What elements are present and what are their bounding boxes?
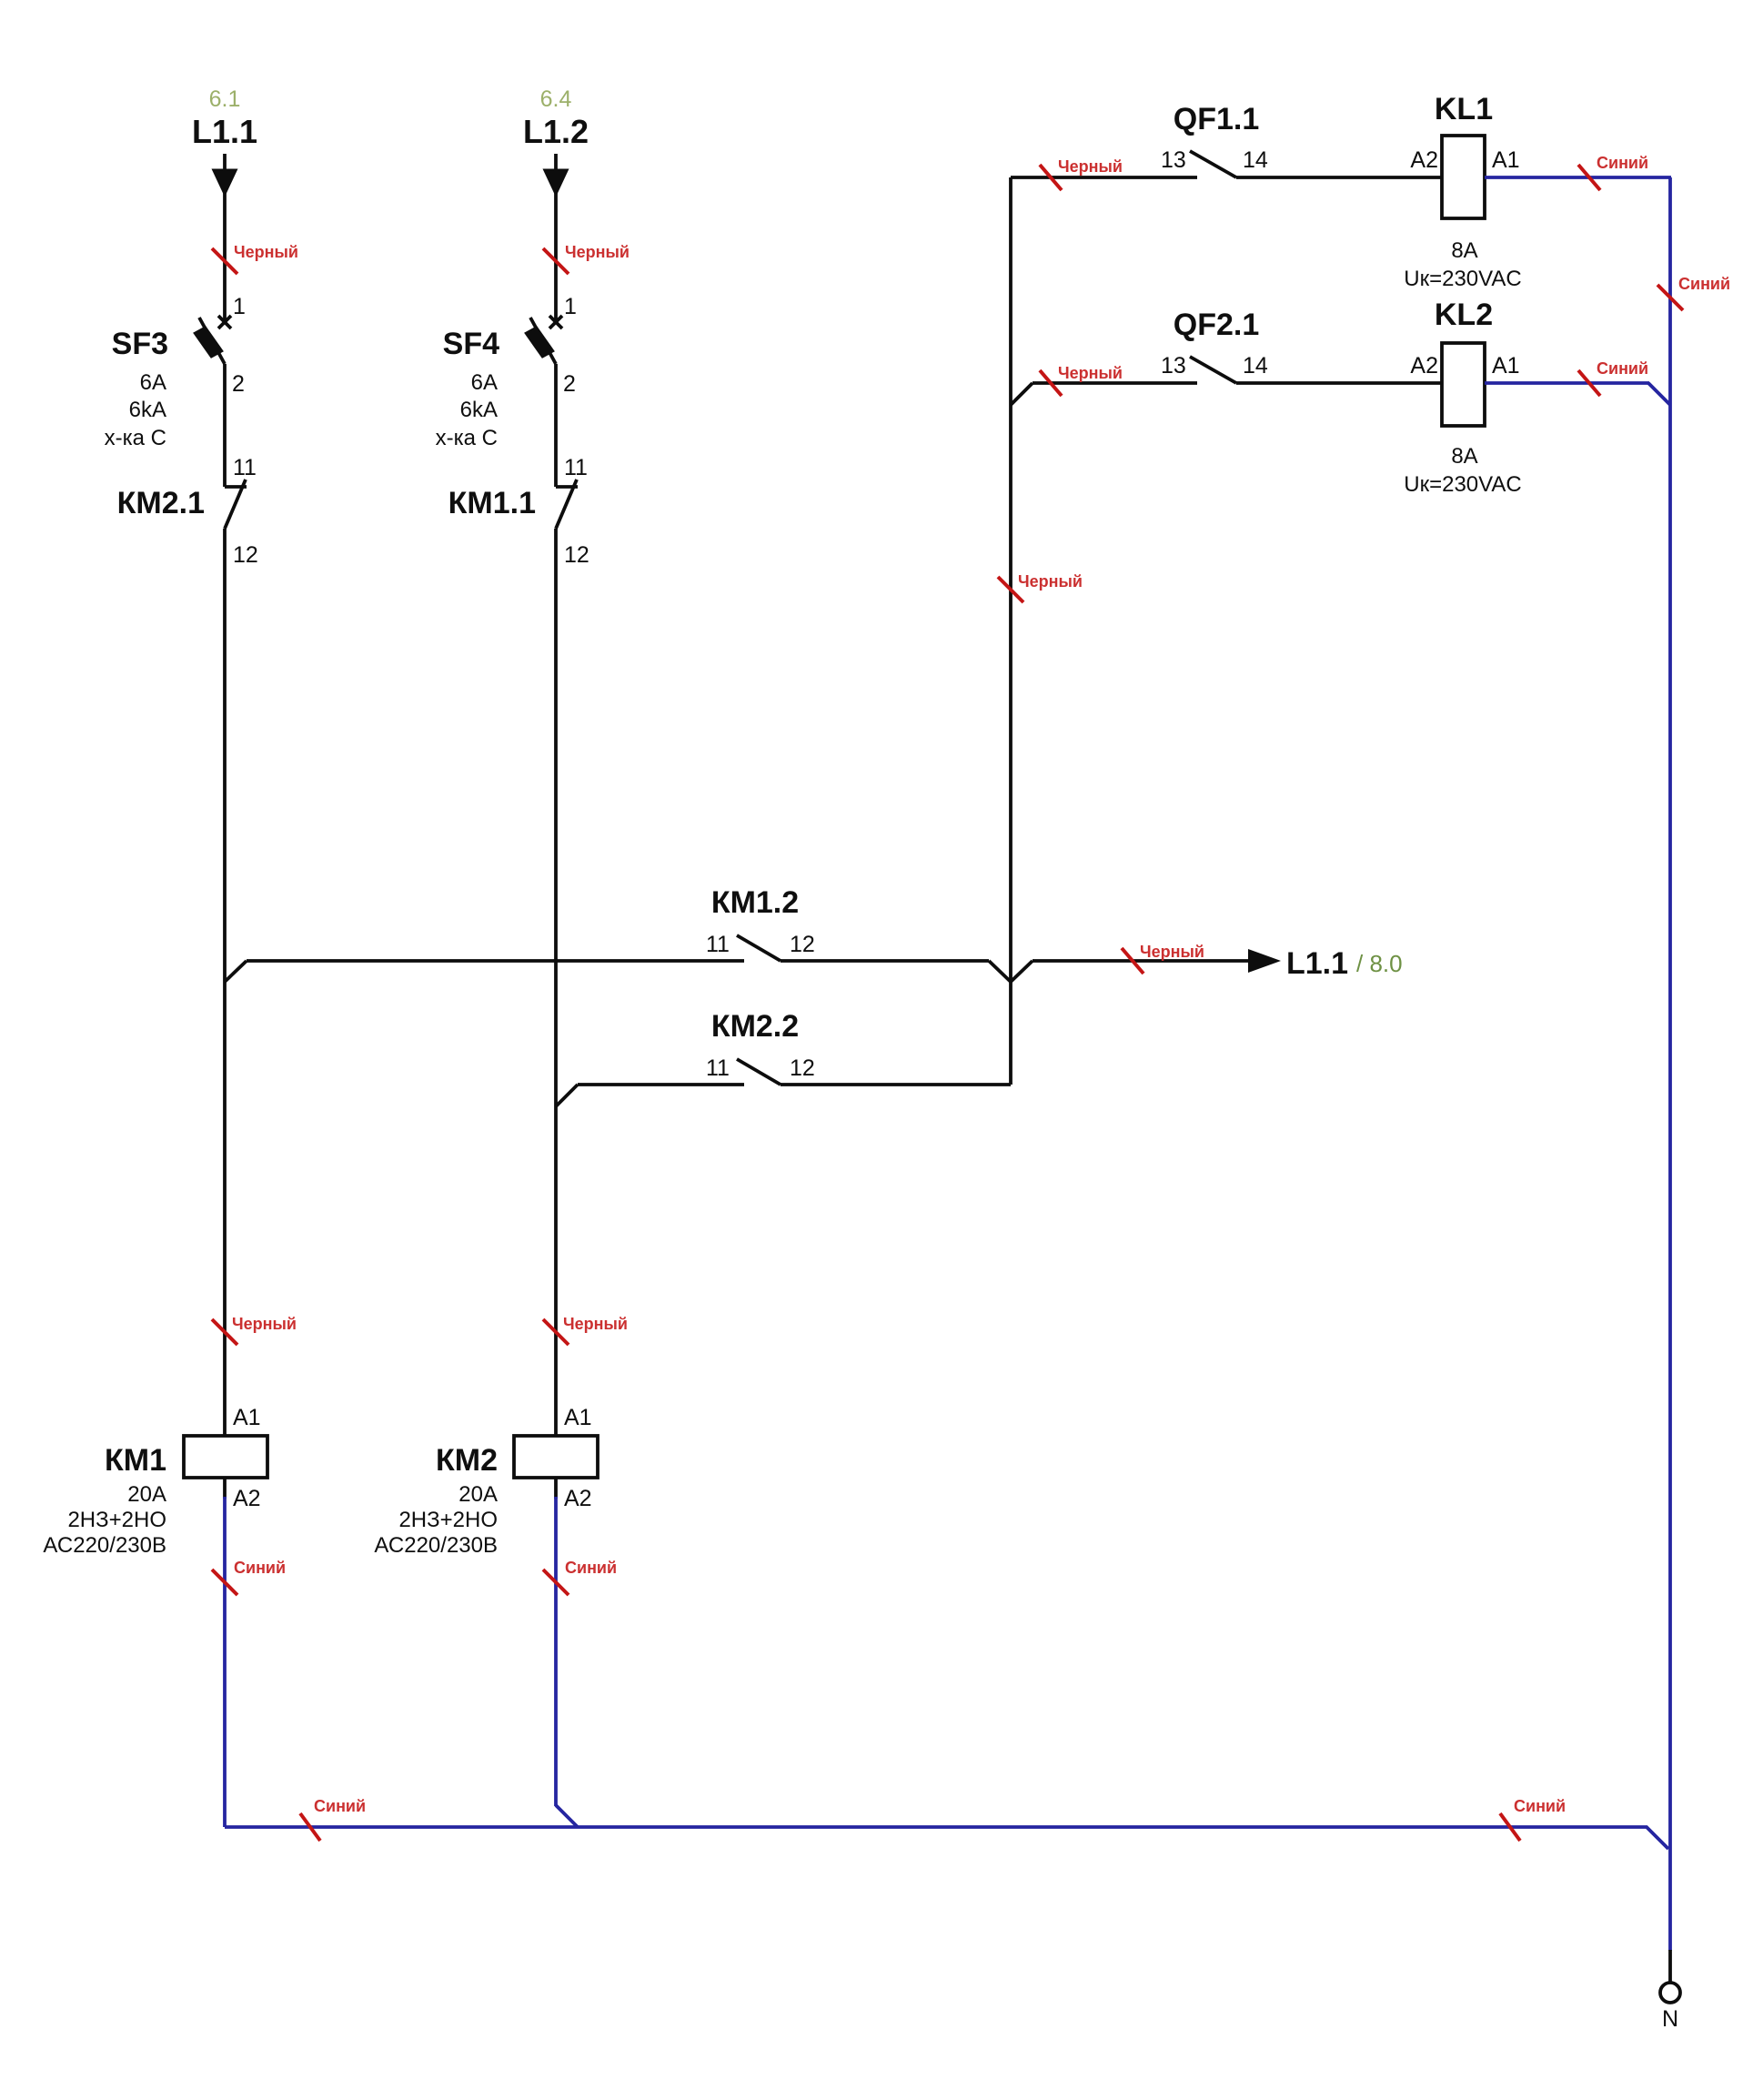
junction jog to KM2.2 branch <box>556 1085 578 1106</box>
svg-text:8A: 8A <box>1451 238 1477 263</box>
svg-text:6.4: 6.4 <box>540 86 572 112</box>
wire color tag Черный (outgoing L1.1) <box>1122 948 1143 974</box>
svg-text:L1.2: L1.2 <box>523 113 589 150</box>
svg-text:13: 13 <box>1161 147 1186 173</box>
terminal N stub <box>1668 1950 1672 1983</box>
svg-text:Синий: Синий <box>234 1559 286 1577</box>
wire KM1 A2 stub <box>223 1478 227 1499</box>
svg-text:1: 1 <box>233 294 246 319</box>
wire KM1 A2 to N bus (blue) <box>223 1497 227 1827</box>
svg-text:Синий: Синий <box>565 1559 617 1577</box>
svg-text:6A: 6A <box>140 370 166 395</box>
svg-text:2НЗ+2НО: 2НЗ+2НО <box>398 1508 498 1532</box>
svg-text:Черный: Черный <box>563 1315 628 1333</box>
wire KM1.2 branch left <box>247 959 744 963</box>
svg-text:A2: A2 <box>1410 147 1438 173</box>
svg-text:A1: A1 <box>564 1405 592 1430</box>
wire color tag Черный (L1.1 drop) <box>212 248 237 274</box>
contact KM2.1 (NC) <box>225 485 247 489</box>
wire color tag Синий (KL1) <box>1578 165 1600 190</box>
junction jog KL2 blue to bus <box>1648 383 1670 405</box>
wire N bus horizontal (blue) <box>225 1827 1668 1849</box>
svg-text:АС220/230В: АС220/230В <box>374 1533 498 1558</box>
svg-text:2: 2 <box>232 371 245 397</box>
junction jog KM2 blue to bus <box>556 1805 578 1827</box>
wire color tag Черный (QF2.1) <box>1040 370 1062 396</box>
svg-text:13: 13 <box>1161 353 1186 379</box>
svg-text:Uк=230VAC: Uк=230VAC <box>1404 472 1521 497</box>
wire KM2.2 branch left <box>578 1083 744 1086</box>
wire KM2 A2 to N bus (blue) <box>554 1497 558 1806</box>
svg-text:КМ1: КМ1 <box>105 1443 166 1478</box>
svg-text:12: 12 <box>790 1055 815 1081</box>
svg-text:14: 14 <box>1243 147 1268 173</box>
wire color tag Черный (above KM2 coil) <box>543 1319 569 1345</box>
svg-text:KL1: KL1 <box>1435 92 1493 126</box>
wire color tag Синий (N bus top) <box>1657 285 1683 310</box>
svg-text:х-ка С: х-ка С <box>436 426 498 450</box>
wire vertical feeder x=1111 <box>1009 177 1012 1085</box>
contact KM1.1 (NC) <box>556 485 578 489</box>
svg-text:КМ1.1: КМ1.1 <box>448 486 536 520</box>
svg-text:6kA: 6kA <box>460 398 498 422</box>
svg-text:L1.1: L1.1 <box>1286 946 1348 981</box>
svg-text:A1: A1 <box>1492 147 1520 173</box>
svg-text:12: 12 <box>564 542 589 568</box>
svg-text:КМ2: КМ2 <box>436 1443 498 1478</box>
svg-text:х-ка С: х-ка С <box>105 426 166 450</box>
svg-text:N: N <box>1662 2006 1678 2032</box>
relay coil KL2 <box>1442 343 1485 426</box>
svg-text:QF2.1: QF2.1 <box>1174 308 1259 342</box>
svg-text:A2: A2 <box>564 1486 592 1511</box>
svg-text:КМ2.1: КМ2.1 <box>117 486 205 520</box>
wire KM1.2 to junction <box>781 959 989 963</box>
svg-text:20A: 20A <box>127 1482 166 1507</box>
svg-text:QF1.1: QF1.1 <box>1174 102 1259 136</box>
svg-text:8A: 8A <box>1451 444 1477 469</box>
breaker SF4 <box>549 316 562 328</box>
wire color tag Синий (below KM1) <box>212 1570 237 1595</box>
svg-text:/ 8.0: / 8.0 <box>1356 950 1403 977</box>
svg-text:A1: A1 <box>233 1405 261 1430</box>
svg-text:АС220/230В: АС220/230В <box>43 1533 166 1558</box>
svg-text:6A: 6A <box>471 370 498 395</box>
wire color tag Синий (below KM2) <box>543 1570 569 1595</box>
wire color tag Синий (bus right) <box>1500 1813 1520 1841</box>
wire color tag Синий (bus left) <box>300 1813 320 1841</box>
wire color tag Черный (feeder) <box>998 577 1023 602</box>
svg-text:11: 11 <box>564 455 588 480</box>
svg-text:Uк=230VAC: Uк=230VAC <box>1404 267 1521 291</box>
svg-text:Черный: Черный <box>565 243 630 261</box>
breaker SF3 <box>218 316 231 328</box>
wire N bus vertical (blue) <box>1668 177 1672 1951</box>
wire color tag Черный (QF1.1) <box>1040 165 1062 190</box>
wire KM1.1 down to coil KM2 <box>554 529 558 1436</box>
svg-text:Синий: Синий <box>314 1797 366 1815</box>
contact KM2.2 (NO) <box>737 1059 781 1085</box>
svg-text:20A: 20A <box>458 1482 498 1507</box>
svg-text:2: 2 <box>563 371 576 397</box>
wire to outgoing arrow <box>1033 959 1248 963</box>
wire L1.2 incoming arrow <box>554 154 558 320</box>
svg-text:1: 1 <box>564 294 577 319</box>
svg-text:A2: A2 <box>1410 353 1438 379</box>
svg-text:6kA: 6kA <box>129 398 166 422</box>
wire QF2.1 row left <box>1033 381 1197 385</box>
wire KM2.2 to vertical <box>781 1083 1011 1086</box>
wire L1.1 incoming arrow <box>223 154 227 320</box>
svg-text:12: 12 <box>233 542 258 568</box>
wire KL2 A1 to N bus (blue) <box>1485 381 1649 385</box>
junction jog to KM1.2 branch <box>225 961 247 982</box>
svg-text:Черный: Черный <box>232 1315 297 1333</box>
outgoing arrow node L1.1 / 8.0 <box>1248 949 1281 973</box>
relay coil KL1 <box>1442 136 1485 218</box>
svg-text:Черный: Черный <box>1058 157 1123 176</box>
svg-text:14: 14 <box>1243 353 1268 379</box>
svg-text:A2: A2 <box>233 1486 261 1511</box>
contact KM1.2 (NO) <box>737 935 781 961</box>
svg-text:11: 11 <box>233 455 257 480</box>
svg-text:Черный: Черный <box>1018 572 1083 591</box>
svg-text:11: 11 <box>706 932 730 957</box>
svg-text:KL2: KL2 <box>1435 298 1493 332</box>
junction jog QF2.1 branch <box>1011 383 1033 405</box>
svg-text:2НЗ+2НО: 2НЗ+2НО <box>67 1508 166 1532</box>
wire SF3 to KM2.1 <box>223 364 227 487</box>
svg-text:11: 11 <box>706 1055 730 1081</box>
terminal N circle <box>1660 1983 1680 2003</box>
svg-text:Синий: Синий <box>1597 359 1648 378</box>
wire color tag Синий (KL2) <box>1578 370 1600 396</box>
wire color tag Черный (above KM1 coil) <box>212 1319 237 1345</box>
wire color tag Черный (L1.2 drop) <box>543 248 569 274</box>
coil KM1 <box>184 1436 267 1478</box>
svg-text:Синий: Синий <box>1514 1797 1566 1815</box>
svg-text:Черный: Черный <box>1058 364 1123 382</box>
coil KM2 <box>514 1436 598 1478</box>
svg-text:КМ1.2: КМ1.2 <box>711 885 799 920</box>
svg-text:КМ2.2: КМ2.2 <box>711 1009 799 1044</box>
wire QF1.1 to KL1 <box>1236 176 1442 179</box>
svg-text:Синий: Синий <box>1678 275 1730 293</box>
wire KM2 A2 stub <box>554 1478 558 1499</box>
wire KL1 A1 to N bus (blue) <box>1485 176 1671 179</box>
svg-text:Черный: Черный <box>234 243 298 261</box>
wire QF2.1 to KL2 <box>1236 381 1442 385</box>
svg-text:A1: A1 <box>1492 353 1520 379</box>
svg-text:6.1: 6.1 <box>209 86 241 112</box>
wire KM2.1 down to coil KM1 <box>223 529 227 1436</box>
svg-text:Черный: Черный <box>1140 943 1204 961</box>
junction jogs at x=1111 <box>989 961 1011 982</box>
contact QF1.1 (NO) <box>1190 151 1236 177</box>
svg-text:L1.1: L1.1 <box>192 113 257 150</box>
contact QF2.1 (NO) <box>1190 357 1236 383</box>
wire SF4 to KM1.1 <box>554 364 558 487</box>
svg-text:Синий: Синий <box>1597 154 1648 172</box>
svg-text:12: 12 <box>790 932 815 957</box>
svg-text:SF3: SF3 <box>112 327 168 361</box>
wire QF1.1 row left <box>1011 176 1197 179</box>
svg-text:SF4: SF4 <box>443 327 499 361</box>
